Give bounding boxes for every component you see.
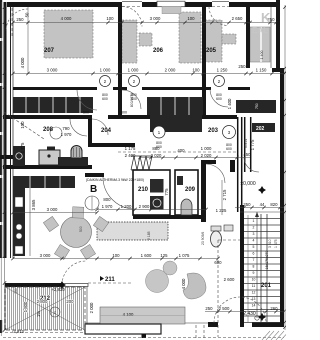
svg-text:790: 790 xyxy=(62,126,70,131)
svg-text:1: 1 xyxy=(253,219,255,223)
svg-text:1 200: 1 200 xyxy=(121,204,132,209)
svg-text:820: 820 xyxy=(270,202,278,207)
svg-text:3 510: 3 510 xyxy=(268,239,272,248)
svg-text:450: 450 xyxy=(243,152,251,157)
svg-text:800/1970: 800/1970 xyxy=(130,93,134,107)
svg-text:400: 400 xyxy=(177,148,185,153)
svg-text:250: 250 xyxy=(16,17,24,22)
svg-text:100: 100 xyxy=(187,16,195,21)
svg-text:1 075: 1 075 xyxy=(179,253,190,258)
svg-text:2 000: 2 000 xyxy=(89,302,94,313)
svg-text:2 020: 2 020 xyxy=(151,153,162,158)
svg-text:2 000: 2 000 xyxy=(165,68,176,73)
svg-text:1 775: 1 775 xyxy=(20,142,25,153)
svg-text:1 000: 1 000 xyxy=(128,68,139,73)
svg-text:1%: 1% xyxy=(36,311,41,317)
svg-text:1 800: 1 800 xyxy=(23,301,28,312)
svg-text:3: 3 xyxy=(253,232,255,236)
svg-text:150: 150 xyxy=(14,288,18,294)
svg-text:207: 207 xyxy=(44,48,55,54)
svg-text:2 900: 2 900 xyxy=(139,204,150,209)
svg-text:100: 100 xyxy=(192,68,200,73)
svg-text:1 250: 1 250 xyxy=(217,68,228,73)
svg-text:3 000: 3 000 xyxy=(47,68,58,73)
svg-text:600: 600 xyxy=(102,97,108,101)
svg-text:2 800: 2 800 xyxy=(37,299,48,304)
svg-text:8: 8 xyxy=(253,265,255,269)
svg-text:4 000: 4 000 xyxy=(20,57,25,68)
svg-text:201: 201 xyxy=(261,283,272,289)
svg-text:2 500: 2 500 xyxy=(219,306,230,311)
svg-text:14: 14 xyxy=(252,304,256,308)
svg-text:11: 11 xyxy=(252,284,256,288)
svg-text:2 600: 2 600 xyxy=(224,277,235,282)
svg-text:4 000: 4 000 xyxy=(61,16,72,21)
svg-text:7: 7 xyxy=(253,258,255,262)
svg-text:1 775: 1 775 xyxy=(250,139,255,150)
svg-text:60x14: 60x14 xyxy=(244,139,248,148)
svg-text:4: 4 xyxy=(253,239,255,243)
svg-text:-2,910: -2,910 xyxy=(12,329,25,334)
svg-text:1 400: 1 400 xyxy=(227,98,232,109)
svg-text:1 150: 1 150 xyxy=(256,68,267,73)
svg-text:3 000: 3 000 xyxy=(150,16,161,21)
svg-text:206: 206 xyxy=(153,48,164,54)
svg-text:2 650: 2 650 xyxy=(232,16,243,21)
svg-text:B: B xyxy=(90,184,97,195)
svg-text:3 000: 3 000 xyxy=(47,207,58,212)
svg-text:±0,000: ±0,000 xyxy=(240,181,255,187)
svg-text:2 715: 2 715 xyxy=(222,189,227,200)
svg-text:1 970: 1 970 xyxy=(61,132,72,137)
svg-text:209: 209 xyxy=(185,187,196,193)
svg-text:500: 500 xyxy=(121,111,127,115)
svg-text:13: 13 xyxy=(252,297,256,301)
svg-text:5: 5 xyxy=(253,245,255,249)
svg-text:16x176x270: 16x176x270 xyxy=(265,251,269,270)
svg-text:750: 750 xyxy=(255,103,259,109)
svg-text:4 000: 4 000 xyxy=(181,278,186,289)
svg-text:1 175: 1 175 xyxy=(125,146,136,151)
svg-text:500: 500 xyxy=(79,226,83,232)
svg-text:1 970: 1 970 xyxy=(102,204,113,209)
svg-text:+2,830: +2,830 xyxy=(51,287,65,292)
svg-text:205: 205 xyxy=(206,48,217,54)
svg-text:125: 125 xyxy=(160,253,168,258)
svg-text:210: 210 xyxy=(138,187,149,193)
svg-text:EAL: EAL xyxy=(252,26,268,35)
svg-text:600: 600 xyxy=(214,260,222,265)
svg-text:9: 9 xyxy=(253,271,255,275)
svg-text:2 020: 2 020 xyxy=(201,153,212,158)
svg-text:2: 2 xyxy=(253,226,255,230)
svg-text:1 375: 1 375 xyxy=(274,239,278,248)
svg-text:100: 100 xyxy=(20,121,25,129)
svg-text:23 905/6: 23 905/6 xyxy=(201,232,205,245)
svg-text:(DAIKIN ALTHERMA 3 9kW 225+180: (DAIKIN ALTHERMA 3 9kW 225+180l) xyxy=(86,178,144,182)
svg-text:3 000: 3 000 xyxy=(40,253,51,258)
svg-text:600: 600 xyxy=(216,97,222,101)
svg-text:211: 211 xyxy=(105,277,115,283)
svg-text:100: 100 xyxy=(106,16,114,21)
svg-text:500: 500 xyxy=(83,111,89,115)
svg-text:200: 200 xyxy=(66,299,74,304)
svg-text:4 100: 4 100 xyxy=(123,312,134,317)
svg-text:6: 6 xyxy=(253,252,255,256)
svg-text:204: 204 xyxy=(101,128,112,134)
svg-text:1 000: 1 000 xyxy=(201,146,212,151)
svg-text:1 400: 1 400 xyxy=(260,51,264,60)
svg-text:2 400: 2 400 xyxy=(125,153,136,158)
svg-text:600: 600 xyxy=(226,147,232,151)
svg-text:1 000: 1 000 xyxy=(100,68,111,73)
svg-text:250: 250 xyxy=(238,64,246,69)
svg-text:10: 10 xyxy=(252,278,256,282)
svg-text:880: 880 xyxy=(152,146,160,151)
svg-text:202: 202 xyxy=(256,126,265,132)
svg-text:44: 44 xyxy=(260,202,265,207)
svg-text:250: 250 xyxy=(205,306,213,311)
svg-text:2 185: 2 185 xyxy=(147,231,151,240)
svg-text:800: 800 xyxy=(103,197,111,202)
svg-text:208: 208 xyxy=(43,127,54,133)
svg-text:775: 775 xyxy=(164,188,169,196)
svg-text:+2,430: +2,430 xyxy=(240,311,256,317)
svg-text:250: 250 xyxy=(243,202,251,207)
svg-text:3 865: 3 865 xyxy=(31,199,36,210)
svg-text:50: 50 xyxy=(25,12,30,17)
svg-text:1 600: 1 600 xyxy=(141,253,152,258)
svg-text:12: 12 xyxy=(252,291,256,295)
svg-text:203: 203 xyxy=(208,128,219,134)
svg-text:1 225: 1 225 xyxy=(216,208,227,213)
